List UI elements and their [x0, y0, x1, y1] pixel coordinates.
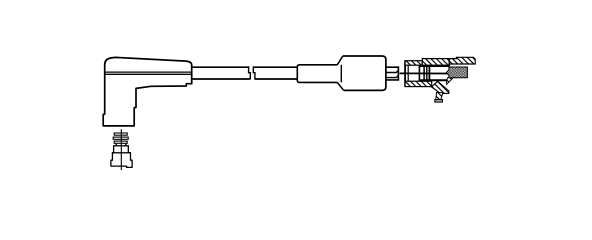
nut body: [114, 146, 129, 153]
connector sleeve: [297, 65, 337, 83]
bore bottom line: [419, 79, 450, 81]
nut rib bar 1: [114, 133, 127, 135]
ignition cable segment 2 bottom line: [255, 78, 297, 80]
socket bottom wall: [405, 81, 432, 86]
ignition cable segment 2 top line: [253, 66, 297, 68]
taper chamfer bottom: [337, 82, 343, 90]
terminal pin rib upper: [386, 70, 398, 72]
ignition cable segment 1 top line: [192, 66, 249, 68]
ignition cable segment 1 bottom line: [192, 78, 250, 80]
socket top wall right section: [422, 59, 449, 66]
boot rib double line: [105, 72, 191, 74]
nut rib bar 2: [113, 137, 128, 139]
socket end cap left edge: [404, 61, 406, 87]
socket end cap inner edge: [407, 65, 409, 81]
socket internal terminal vertical rib 2: [423, 66, 425, 81]
cable break mark left: [249, 66, 251, 79]
taper chamfer top: [337, 56, 342, 65]
spark plug boot (90-degree elbow) outline: [103, 57, 192, 126]
nut rib bar 3: [114, 141, 127, 143]
cable break mark right: [253, 66, 255, 79]
nut skirt: [111, 153, 132, 168]
socket right edge: [448, 59, 450, 66]
sleeve right face: [340, 65, 342, 83]
bore upper line: [419, 65, 450, 67]
terminal pin rib lower: [386, 76, 398, 78]
spark plug terminal nut centerline: [120, 129, 122, 170]
right lower diagonal wall: [446, 78, 453, 85]
top flange: [449, 57, 475, 64]
nut neck: [116, 144, 126, 146]
mounting leg: [436, 92, 443, 99]
connector body cylinder: [343, 56, 386, 90]
terminal pin outline: [386, 67, 399, 80]
mounting leg foot: [435, 100, 443, 102]
crimped cable cross-section block: [446, 67, 467, 78]
socket internal terminal vertical rib 1: [418, 66, 420, 81]
bottom wedge: [432, 81, 449, 93]
socket internal terminal vertical rib 4: [428, 66, 430, 81]
socket top wall left section: [405, 61, 422, 65]
socket internal terminal vertical rib 3: [426, 66, 428, 81]
axis line between pin and socket: [400, 72, 449, 74]
